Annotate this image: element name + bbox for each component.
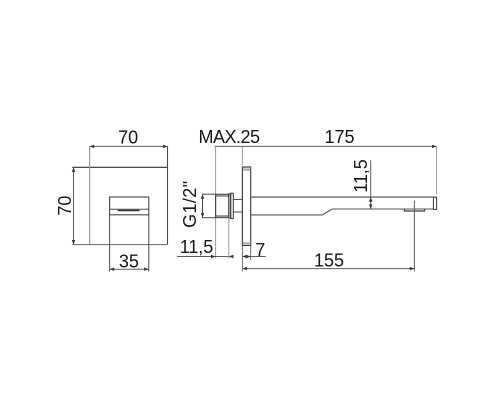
arrow top of 70 left	[72, 167, 75, 172]
wall plate square (front view) top edge with left extension	[72, 166, 167, 168]
svg-text:7: 7	[255, 240, 265, 260]
arrow tip at plate left face	[242, 255, 247, 258]
svg-text:155: 155	[314, 250, 344, 270]
thread crest thick bottom band	[216, 215, 229, 217]
threaded inlet pipe plain section	[203, 194, 216, 218]
plate right edge extension down (7 dim)	[250, 246, 252, 261]
threaded inlet pipe threaded section outline	[216, 194, 229, 218]
wall plate square right edge (extends up to dim line)	[167, 146, 169, 244]
arrow tip at plate right face	[246, 255, 251, 258]
flange disc 2	[231, 193, 234, 218]
arrow up at spout top edge	[369, 197, 372, 202]
flange disc 1	[229, 194, 231, 218]
arrow tip at x=228.8	[229, 255, 234, 258]
wall plate (side view)	[242, 167, 250, 246]
svg-text:11,5: 11,5	[351, 159, 371, 193]
arrow at 155 right end	[410, 267, 415, 270]
spout front left extension line down to 35 dim	[109, 215, 111, 272]
wall plate square left edge (extends up to dim line)	[89, 146, 91, 244]
thread crest thick top band	[216, 195, 229, 197]
wall plate inner edge line bottom	[242, 242, 250, 244]
aerator outlet under spout	[405, 209, 425, 211]
spout tip cap	[433, 197, 436, 209]
wall plate bottom chamfer band	[243, 243, 250, 245]
G1/2 arrow up (on thread end face)	[201, 194, 204, 199]
arrow left of 70 top	[90, 145, 95, 148]
dimension line 11,5 bottom left (thread length)	[177, 256, 233, 258]
dimension line 155	[242, 268, 414, 270]
wall plate inner edge line top	[242, 169, 250, 171]
spout front mid edge line	[110, 208, 149, 210]
arrow at 175 right end	[432, 145, 437, 148]
svg-text:G1/2": G1/2"	[180, 181, 200, 228]
arrow bottom of 70 left	[72, 240, 75, 245]
svg-text:11,5: 11,5	[180, 237, 214, 257]
outlet centre extension line (155 dim)	[413, 201, 415, 272]
arrow right of 70 top	[163, 145, 168, 148]
dimension line 7 (plate thickness)	[242, 256, 265, 258]
shared top dimension line (MAX.25 + 175)	[214, 145, 436, 147]
svg-text:175: 175	[324, 127, 354, 147]
svg-text:70: 70	[118, 128, 138, 148]
spout front right extension line down to 35 dim	[148, 215, 150, 272]
extension line at max-wall limit (x=215.6)	[215, 146, 217, 258]
neck top line to plate	[233, 198, 242, 200]
svg-text:35: 35	[119, 252, 139, 272]
neck bottom line to plate	[233, 211, 242, 213]
spout tube top edge	[251, 196, 437, 198]
arrow at 155 left end	[242, 267, 247, 270]
spout tube bottom edge (stepped)	[251, 209, 434, 215]
arrow tip at x=215.6	[211, 255, 216, 258]
dimension line 70 (top, front view)	[90, 145, 168, 147]
arrow right of 35	[144, 268, 149, 271]
spout body front face rectangle	[110, 197, 149, 215]
dimension line 35 (bottom, front view)	[110, 268, 149, 270]
extension line at spout tip (x=436.6)	[436, 146, 438, 194]
wall plate top chamfer band	[243, 168, 250, 171]
dimension line 70 (left, front view)	[73, 167, 75, 244]
G1/2 arrow down (on thread end face)	[201, 213, 204, 218]
extension line from thread end down	[228, 218, 230, 259]
svg-text:MAX.25: MAX.25	[199, 127, 260, 147]
arrow left of 35	[110, 268, 115, 271]
plate left edge extension down (7 + 155 dims)	[241, 246, 243, 272]
spout front opening lip	[118, 210, 140, 212]
vertical dimension 11,5 (spout height) line	[370, 160, 372, 209]
extension line above wall plate	[241, 146, 243, 164]
wall plate square bottom edge with left extension	[72, 244, 167, 246]
arrow down at spout bottom edge	[369, 204, 372, 209]
svg-text:70: 70	[55, 196, 75, 216]
